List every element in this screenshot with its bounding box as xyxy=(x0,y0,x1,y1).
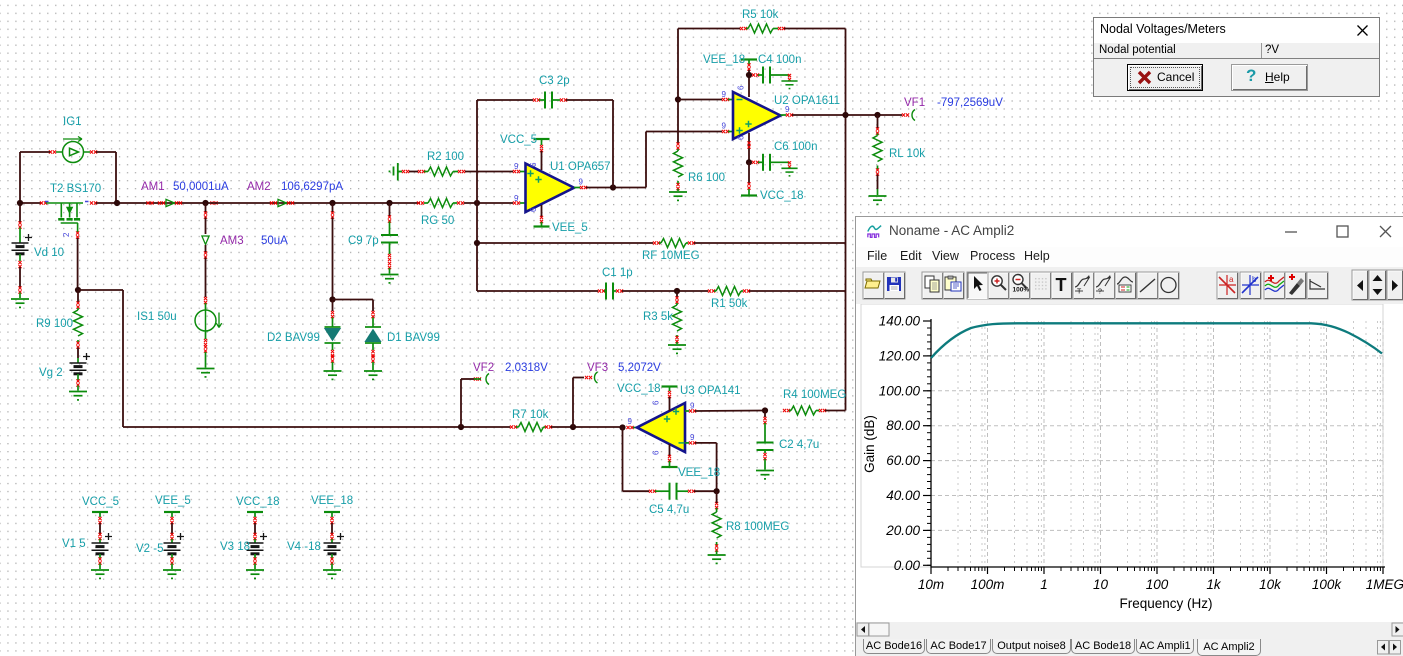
node U2 inverting xyxy=(675,96,681,102)
svg-text:50,0001uA: 50,0001uA xyxy=(173,181,229,193)
wire xyxy=(205,218,207,235)
wire xyxy=(390,202,421,204)
svg-text:2: 2 xyxy=(62,232,71,237)
ground R8 xyxy=(708,555,726,563)
svg-text:a: a xyxy=(1229,275,1234,284)
wire xyxy=(877,175,879,190)
svg-text:VEE_5: VEE_5 xyxy=(155,495,191,507)
U1 supply VCC_5 xyxy=(534,138,550,140)
svg-text:2,0318V: 2,0318V xyxy=(505,362,548,374)
ground V2 xyxy=(163,570,181,578)
transistor T2 BS170 xyxy=(46,203,83,232)
svg-text:D1 BAV99: D1 BAV99 xyxy=(387,332,440,344)
wire xyxy=(465,171,513,173)
wire R5 left drop xyxy=(677,29,679,100)
wire xyxy=(586,187,646,189)
node IG1 left xyxy=(17,200,23,206)
ground R3 xyxy=(668,345,686,353)
svg-text:RF 10MEG: RF 10MEG xyxy=(642,250,700,262)
svg-text:10: 10 xyxy=(1093,577,1109,592)
node AM3 tap xyxy=(202,200,208,206)
svg-text:VCC_5: VCC_5 xyxy=(82,496,119,508)
svg-text:20.00: 20.00 xyxy=(885,523,920,538)
svg-text:9: 9 xyxy=(722,90,727,99)
U3 supply VEE_18 xyxy=(669,444,671,456)
svg-text:C5 4,7u: C5 4,7u xyxy=(649,504,689,516)
svg-text:9: 9 xyxy=(722,122,727,131)
svg-text:Vd 10: Vd 10 xyxy=(34,247,64,259)
svg-text:6: 6 xyxy=(652,400,661,405)
svg-text:C6 100n: C6 100n xyxy=(774,141,817,153)
wire xyxy=(749,290,846,292)
input jumper symbol xyxy=(394,163,403,181)
svg-text:R6 100: R6 100 xyxy=(688,172,725,184)
ground C2 xyxy=(756,471,774,479)
svg-text:VEE_18: VEE_18 xyxy=(703,54,745,66)
svg-text:5,2072V: 5,2072V xyxy=(618,362,661,374)
ground Vg xyxy=(69,392,87,400)
svg-text:VCC_18: VCC_18 xyxy=(760,190,803,202)
wire xyxy=(20,202,41,204)
svg-text:AM1: AM1 xyxy=(141,181,165,193)
svg-text:10k: 10k xyxy=(1259,577,1282,592)
wire xyxy=(77,348,79,359)
wire xyxy=(695,410,765,413)
wire T2 source xyxy=(77,238,79,290)
wire xyxy=(877,115,879,128)
wire xyxy=(566,99,613,101)
svg-text:Vg 2: Vg 2 xyxy=(39,367,63,379)
node RF left xyxy=(474,240,480,246)
ground Vd xyxy=(11,299,29,307)
capacitor C4 100n xyxy=(752,73,759,76)
svg-text:T: T xyxy=(1056,275,1067,295)
svg-text:R8 100MEG: R8 100MEG xyxy=(726,521,789,533)
wire left feedback vertical xyxy=(476,100,478,203)
ground V4 xyxy=(323,570,341,578)
svg-text:100k: 100k xyxy=(1312,577,1343,592)
svg-text:9: 9 xyxy=(690,433,695,442)
svg-text:100%: 100% xyxy=(1013,287,1030,294)
wire xyxy=(123,426,510,428)
ammeter AM2 arrow xyxy=(278,199,287,206)
diode D1 BAV99 xyxy=(371,311,374,318)
svg-text:Gain (dB): Gain (dB) xyxy=(862,415,877,473)
wire xyxy=(333,202,390,204)
wire xyxy=(748,70,750,97)
voltage source V1 rail VCC_5 xyxy=(92,511,108,513)
node C5 / R8 xyxy=(714,488,720,494)
svg-text:6: 6 xyxy=(529,207,538,212)
node diode tap xyxy=(329,200,335,206)
wire U2 inv input xyxy=(678,99,722,101)
svg-text:6: 6 xyxy=(737,85,746,90)
wire xyxy=(622,290,677,292)
svg-text:9: 9 xyxy=(514,162,519,171)
capacitor C6 100n xyxy=(752,161,759,164)
wire xyxy=(825,410,846,412)
svg-text:C2 4,7u: C2 4,7u xyxy=(779,439,819,451)
wire xyxy=(372,300,374,312)
wire xyxy=(623,490,650,492)
svg-text:60.00: 60.00 xyxy=(886,453,920,468)
wire xyxy=(477,290,598,292)
svg-text:R5 10k: R5 10k xyxy=(742,9,779,21)
svg-text:100.00: 100.00 xyxy=(879,383,921,398)
svg-text:RL 10k: RL 10k xyxy=(889,148,925,160)
svg-text:T: T xyxy=(1077,289,1082,296)
svg-text:106,6297pA: 106,6297pA xyxy=(281,181,343,193)
wire xyxy=(389,203,391,216)
wire xyxy=(716,443,718,491)
svg-text:1k: 1k xyxy=(1206,577,1222,592)
svg-text:100m: 100m xyxy=(971,577,1005,592)
svg-text:9: 9 xyxy=(579,178,584,187)
svg-text:9: 9 xyxy=(690,402,695,411)
node R4 / C2 xyxy=(762,407,768,413)
ground D2 xyxy=(324,371,342,379)
voltage source V3 rail VCC_18 xyxy=(247,511,263,513)
U3 + input wire to R4 xyxy=(685,410,689,412)
wire xyxy=(784,28,846,30)
wire xyxy=(461,378,474,380)
wire xyxy=(572,378,574,428)
wire xyxy=(333,299,374,301)
svg-text:C1 1p: C1 1p xyxy=(602,267,633,279)
node C4 tap xyxy=(746,72,752,78)
wire xyxy=(96,202,206,204)
node diode split xyxy=(329,296,335,302)
wire xyxy=(476,203,478,243)
ground RL xyxy=(869,196,887,204)
svg-text:120.00: 120.00 xyxy=(879,348,921,363)
node R3 top xyxy=(674,288,680,294)
wire xyxy=(19,152,21,203)
svg-text:9: 9 xyxy=(514,194,519,203)
svg-text:40.00: 40.00 xyxy=(886,488,920,503)
wire xyxy=(96,151,116,153)
svg-text:V1 5: V1 5 xyxy=(62,538,86,550)
svg-text:?: ? xyxy=(1098,289,1102,296)
op-amp U1 OPA657 xyxy=(526,164,575,213)
svg-text:R1 50k: R1 50k xyxy=(711,298,748,310)
svg-text:50uA: 50uA xyxy=(261,235,288,247)
svg-text:D2 BAV99: D2 BAV99 xyxy=(267,332,320,344)
U3 supply VCC_18 xyxy=(662,386,678,388)
wire xyxy=(20,151,50,153)
svg-text:C3 2p: C3 2p xyxy=(539,75,570,87)
wire xyxy=(677,290,708,292)
svg-text:6: 6 xyxy=(652,450,661,455)
wire C3 feedback xyxy=(612,100,614,188)
svg-text:1: 1 xyxy=(1040,577,1048,592)
probe VF1 hook xyxy=(912,110,915,121)
svg-text:U3 OPA141: U3 OPA141 xyxy=(680,385,741,397)
wire xyxy=(205,258,207,298)
wire xyxy=(676,291,678,297)
wire xyxy=(622,428,624,492)
wire left drop xyxy=(122,290,124,427)
svg-text:VEE_18: VEE_18 xyxy=(678,467,720,479)
node feedback junction xyxy=(842,112,848,118)
wire xyxy=(205,203,207,212)
voltage source V2 rail VEE_5 xyxy=(164,511,180,513)
svg-text:R7 10k: R7 10k xyxy=(512,409,549,421)
svg-text:R9 100: R9 100 xyxy=(36,318,73,330)
svg-text:6: 6 xyxy=(737,135,746,140)
svg-text:VCC_5: VCC_5 xyxy=(500,134,537,146)
wire xyxy=(409,171,418,173)
svg-text:V3 18: V3 18 xyxy=(220,541,250,553)
wire to feedback loop xyxy=(78,289,123,291)
wire xyxy=(677,100,679,144)
svg-text:6: 6 xyxy=(529,162,538,167)
wire xyxy=(477,242,653,244)
svg-text:Frequency (Hz): Frequency (Hz) xyxy=(1119,596,1212,611)
resistor R2 100 xyxy=(402,170,409,173)
svg-text:AM3: AM3 xyxy=(220,235,244,247)
wire xyxy=(115,152,117,203)
ground R6 xyxy=(669,192,687,200)
wire xyxy=(476,243,478,291)
wire xyxy=(332,218,334,300)
svg-text:R2 100: R2 100 xyxy=(427,151,464,163)
wire xyxy=(678,28,740,30)
op-amp U2 OPA1611 xyxy=(733,92,781,139)
svg-text:T2 BS170: T2 BS170 xyxy=(50,183,101,195)
wire xyxy=(694,490,717,492)
wire xyxy=(19,267,21,287)
svg-text:VF1: VF1 xyxy=(904,97,925,109)
resistor RG 50 xyxy=(417,201,424,204)
svg-text:IS1 50u: IS1 50u xyxy=(137,311,177,323)
svg-text:RG 50: RG 50 xyxy=(421,215,454,227)
ammeter AM1 arrow xyxy=(166,199,175,206)
U2 output wire xyxy=(781,114,787,116)
resistor R8 100MEG xyxy=(715,502,718,509)
wire xyxy=(764,411,766,418)
node drain junction xyxy=(114,200,120,206)
ground V1 xyxy=(91,570,109,578)
U1 supply VEE_5 xyxy=(541,205,543,217)
wire xyxy=(332,300,334,312)
svg-text:R4 100MEG: R4 100MEG xyxy=(783,389,846,401)
node inverting input junction xyxy=(474,200,480,206)
wire xyxy=(551,426,620,428)
wire xyxy=(77,290,79,302)
svg-text:140.00: 140.00 xyxy=(879,314,921,329)
svg-text:R3 5k: R3 5k xyxy=(643,311,673,323)
wire xyxy=(205,245,207,252)
node C9 tap xyxy=(386,200,392,206)
node C6 tap xyxy=(746,159,752,165)
svg-text:-797,2569uV: -797,2569uV xyxy=(937,97,1003,109)
node T2 source junction xyxy=(75,287,81,293)
svg-text:V2 -5: V2 -5 xyxy=(136,543,164,555)
ground C9 xyxy=(381,275,399,283)
wire xyxy=(748,133,750,160)
svg-text:IG1: IG1 xyxy=(63,116,82,128)
wire xyxy=(646,131,722,133)
wire xyxy=(694,242,846,244)
svg-text:9: 9 xyxy=(628,417,633,426)
wire xyxy=(792,114,902,116)
wire xyxy=(464,202,513,204)
wire xyxy=(332,203,334,212)
node VF2 tap xyxy=(458,424,464,430)
current generator IG1 xyxy=(56,137,90,163)
node U3 output junction xyxy=(619,424,625,430)
wire xyxy=(573,377,584,379)
ground D1 xyxy=(364,371,382,379)
node U1 output xyxy=(610,184,616,190)
wire xyxy=(716,491,718,503)
svg-text:VF2: VF2 xyxy=(473,362,494,374)
wire xyxy=(19,203,21,222)
wire xyxy=(206,202,333,204)
svg-text:0.00: 0.00 xyxy=(894,558,921,573)
svg-text:VCC_18: VCC_18 xyxy=(617,383,660,395)
U3 - input wire to C5 xyxy=(685,442,689,444)
U1 output lead xyxy=(574,187,580,189)
svg-text:VEE_18: VEE_18 xyxy=(311,495,353,507)
wire right feedback vertical xyxy=(845,29,847,411)
svg-text:C4 100n: C4 100n xyxy=(758,54,801,66)
svg-text:VCC_18: VCC_18 xyxy=(236,496,279,508)
svg-text:V4 -18: V4 -18 xyxy=(287,541,321,553)
wire xyxy=(460,379,462,427)
svg-text:1MEG: 1MEG xyxy=(1366,577,1403,592)
svg-text:80.00: 80.00 xyxy=(886,418,920,433)
op-amp U3 OPA141 xyxy=(637,403,685,452)
svg-text:VF3: VF3 xyxy=(587,362,608,374)
wire xyxy=(477,99,533,101)
current source IS1 50u xyxy=(205,303,207,310)
svg-text:C9 7p: C9 7p xyxy=(348,235,379,247)
svg-text:U1 OPA657: U1 OPA657 xyxy=(550,161,611,173)
ground V3 xyxy=(246,570,264,578)
svg-text:100: 100 xyxy=(1146,577,1169,592)
node VF3 tap xyxy=(570,424,576,430)
wire xyxy=(695,442,717,444)
svg-text:10m: 10m xyxy=(918,577,944,592)
svg-text:b: b xyxy=(1252,275,1257,284)
svg-text:AM2: AM2 xyxy=(247,181,271,193)
svg-text:U2 OPA1611: U2 OPA1611 xyxy=(774,95,840,107)
voltage source V4 rail VEE_18 xyxy=(324,511,340,513)
ground IS1 xyxy=(197,369,215,377)
node VF1 / RL xyxy=(874,112,880,118)
wire xyxy=(645,132,647,188)
U2 supply VEE_18 rail xyxy=(741,59,757,61)
svg-text:VEE_5: VEE_5 xyxy=(552,222,588,234)
wire xyxy=(748,162,750,183)
